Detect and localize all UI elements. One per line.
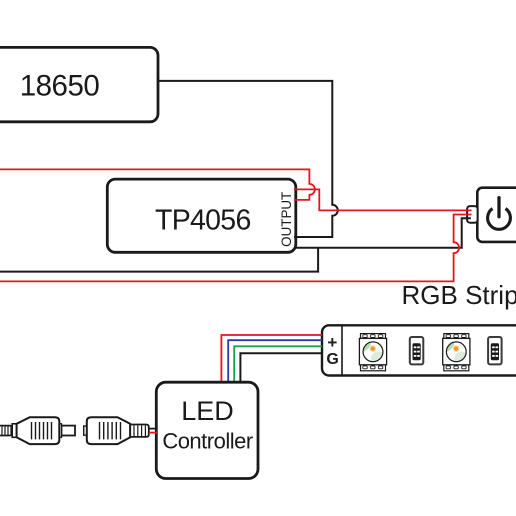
connector J2 female jack body xyxy=(87,417,130,444)
connector J1 male plug tip xyxy=(59,424,75,438)
wire black TP4056 OUT- to switch xyxy=(294,218,471,247)
wire red jack to controller xyxy=(149,432,157,434)
wire battery+ red to TP4056 B+ (hop over red stub) xyxy=(0,169,315,200)
RGB strip module body xyxy=(322,325,516,375)
svg-text:+: + xyxy=(327,333,337,352)
connector J2 female jack nub xyxy=(84,426,87,435)
wire black OUT- branch to left xyxy=(0,248,318,272)
wire black controller to strip xyxy=(240,353,322,383)
wire battery- to TP4056 B- (black, hop over red) xyxy=(158,81,338,237)
svg-text:TP4056: TP4056 xyxy=(155,205,251,237)
connector J1 male plug cable xyxy=(0,426,12,436)
svg-text:LED: LED xyxy=(181,396,234,426)
switch S1 button body xyxy=(477,188,516,242)
wire red controller to strip + xyxy=(221,335,322,383)
LED D2 xyxy=(443,334,470,371)
svg-text:OUTPUT: OUTPUT xyxy=(279,192,294,247)
switch S1 terminal tab xyxy=(467,206,478,223)
wire green controller to strip G xyxy=(234,346,322,383)
wire blue controller to strip xyxy=(228,340,322,383)
connector J1 male plug body xyxy=(12,417,59,444)
svg-text:RGB Strip: RGB Strip xyxy=(402,280,516,310)
LED D1 xyxy=(359,334,386,371)
wire red TP4056 OUT+ to switch xyxy=(294,189,472,210)
battery 18650 xyxy=(0,47,158,121)
resistor R2 xyxy=(488,337,502,364)
wire black jack to controller xyxy=(149,428,157,430)
TP4056 U1 xyxy=(107,179,295,252)
LED controller U2 xyxy=(156,382,258,478)
wire red bottom rail to switch (hop over black) xyxy=(0,215,472,282)
switch S1 power icon xyxy=(488,209,511,230)
svg-text:Controller: Controller xyxy=(162,429,253,454)
strip terminal divider xyxy=(341,325,343,375)
resistor R1 xyxy=(410,337,424,364)
svg-text:18650: 18650 xyxy=(20,69,100,102)
connector J2 female jack barrel xyxy=(130,425,149,437)
svg-text:G: G xyxy=(326,351,338,368)
